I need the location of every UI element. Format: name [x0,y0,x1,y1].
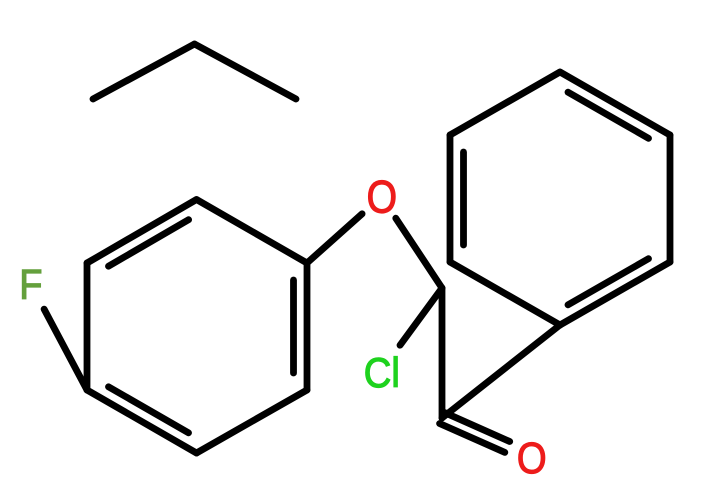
left ring edge TL [87,200,197,264]
left ring edge L [84,263,91,390]
C=O line1 [440,424,505,453]
C*-Cl bond [400,288,442,345]
right ring double L [460,152,467,245]
Ccarb-aryl bond [442,325,560,418]
svg-text:F: F [19,262,42,308]
right ring edge BL [450,262,560,325]
O-aryl bond [307,214,362,263]
C=O line2 [444,413,509,442]
left ring double BL [109,387,189,433]
left ring double R [290,280,297,373]
wire floating V left arm [93,44,195,99]
F bond [44,309,87,390]
right ring edge BR [560,262,670,325]
left ring edge TR [197,200,308,264]
right ring edge R [667,135,674,262]
right ring edge TR [560,72,670,135]
right ring double BR [568,259,649,305]
wire floating V right arm [195,44,297,99]
svg-text:Cl: Cl [364,349,400,396]
left ring edge R [304,263,311,390]
right ring edge L [447,135,454,262]
svg-text:O: O [517,434,547,483]
left ring edge BR [197,390,308,453]
left ring edge BL [87,390,197,453]
svg-text:O: O [367,172,397,222]
left ring double TL [109,220,189,267]
right ring edge TL [450,72,560,135]
right ring double TR [568,92,649,138]
O-C* bond [396,218,442,288]
C*-Ccarb bond [439,288,446,418]
